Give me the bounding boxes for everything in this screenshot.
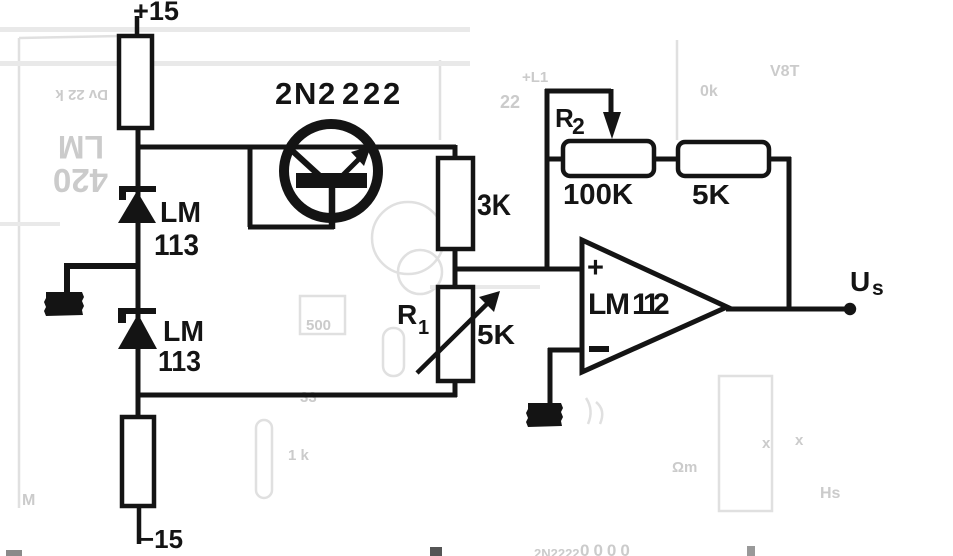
wire: main left vertical rail bbox=[136, 145, 141, 417]
+15 supply lead wire bbox=[135, 16, 140, 36]
resistor (top, +15 rail) bbox=[119, 36, 152, 128]
svg-text:+L1: +L1 bbox=[522, 69, 548, 86]
wire: R2 wiper arrow stem bbox=[609, 89, 614, 116]
svg-text:2N2222: 2N2222 bbox=[275, 76, 400, 111]
wire: 3K bottom to node B bbox=[453, 249, 458, 288]
output terminal dot bbox=[844, 303, 856, 315]
svg-text:113: 113 bbox=[158, 346, 201, 378]
diode D2 LM113 cathode bar with hook bbox=[118, 308, 156, 323]
op-amp U1 LM112 triangle bbox=[582, 240, 727, 372]
resistor (bottom, -15 rail) bbox=[122, 417, 154, 506]
svg-text:420: 420 bbox=[53, 162, 108, 199]
ground blob (op-amp minus) bbox=[526, 403, 563, 427]
svg-text:LM: LM bbox=[58, 129, 104, 165]
wire: R2 left stub bbox=[545, 157, 565, 162]
wire: R2 wiper vertical to + node bbox=[545, 89, 550, 270]
svg-text:s: s bbox=[872, 277, 884, 300]
label op-amp minus bbox=[589, 346, 609, 352]
svg-text:Dv 22 k: Dv 22 k bbox=[55, 86, 108, 103]
svg-text:1 k: 1 k bbox=[288, 447, 310, 464]
wire: main top horizontal (node A to 3K) bbox=[136, 145, 456, 150]
svg-text:Ωm: Ωm bbox=[672, 459, 697, 476]
wire: ground branch horizontal bbox=[64, 263, 140, 269]
svg-text:0k: 0k bbox=[700, 83, 718, 100]
wire: bottom horizontal return bbox=[136, 393, 457, 398]
svg-text:1: 1 bbox=[418, 317, 429, 339]
svg-text:x: x bbox=[762, 435, 771, 452]
svg-text:LM: LM bbox=[160, 197, 201, 229]
wire: bottom resistor to -15 lead bbox=[137, 506, 142, 544]
svg-text:2: 2 bbox=[572, 113, 585, 139]
transistor Q1 base bar bbox=[296, 173, 367, 188]
wire: between 100K and 5K bbox=[653, 157, 679, 162]
svg-text:U: U bbox=[850, 266, 870, 297]
svg-text:Hs: Hs bbox=[820, 485, 841, 502]
caption cut off at bottom edge bbox=[6, 546, 755, 556]
svg-text:2N2222: 2N2222 bbox=[534, 546, 580, 556]
diode D2 LM113 triangle bbox=[118, 314, 157, 349]
svg-text:5K: 5K bbox=[477, 319, 515, 350]
wire: output to Us terminal bbox=[726, 307, 848, 312]
resistor 5K (feedback) bbox=[678, 142, 769, 176]
wire: R1 bottom jog bbox=[453, 381, 458, 397]
diode D1 LM113 cathode bar bbox=[119, 186, 156, 200]
svg-text:113: 113 bbox=[154, 229, 199, 262]
svg-text:500: 500 bbox=[306, 317, 331, 334]
wire: collector-base tie L (bottom leg) bbox=[248, 225, 334, 230]
svg-text:+15: +15 bbox=[133, 0, 179, 26]
wire: jog down to 3K top bbox=[453, 145, 458, 161]
transistor Q1 collector stroke bbox=[286, 145, 321, 177]
transistor Q1 emitter stroke with arrow bbox=[341, 155, 363, 177]
svg-text:x: x bbox=[795, 432, 804, 449]
svg-text:100K: 100K bbox=[563, 179, 633, 211]
R1 variable arrow bbox=[417, 301, 490, 373]
svg-text:M: M bbox=[22, 492, 35, 509]
wire: minus input ground drop bbox=[548, 348, 553, 404]
resistor R1 5K body bbox=[438, 287, 473, 381]
wire: ground branch vertical drop bbox=[64, 263, 70, 292]
wire: R2 top loop horizontal bbox=[545, 89, 611, 94]
ground blob (left) bbox=[44, 292, 84, 316]
resistor R2 100K body bbox=[563, 141, 654, 176]
wire: op-amp minus input bbox=[548, 348, 584, 353]
wire: transistor base lead bbox=[329, 186, 336, 229]
R2 wiper arrowhead bbox=[603, 112, 621, 139]
svg-text:LM: LM bbox=[163, 316, 204, 348]
wire: feedback vertical to output bbox=[787, 157, 792, 311]
wire: node B to op-amp + input bbox=[453, 267, 584, 272]
resistor 3K bbox=[438, 158, 473, 249]
ghost background show-through layer bbox=[19, 36, 772, 511]
svg-text:5K: 5K bbox=[692, 179, 730, 210]
faint scan streaks bbox=[0, 27, 540, 289]
svg-text:V8T: V8T bbox=[770, 63, 800, 80]
transistor Q1 body circle bbox=[284, 124, 378, 218]
svg-text:3K: 3K bbox=[477, 189, 511, 222]
svg-text:22: 22 bbox=[500, 92, 520, 112]
svg-text:LM112: LM112 bbox=[588, 288, 670, 321]
wire: top resistor to node A bbox=[136, 128, 141, 150]
diode D1 LM113 triangle bbox=[118, 191, 156, 223]
wire: collector-base tie L (left leg) bbox=[248, 147, 253, 227]
wire: 5K to feedback corner bbox=[767, 157, 791, 162]
svg-text:0000: 0000 bbox=[580, 541, 634, 556]
svg-text:−15: −15 bbox=[139, 524, 183, 554]
svg-text:+: + bbox=[587, 252, 604, 284]
svg-text:R: R bbox=[397, 299, 417, 330]
